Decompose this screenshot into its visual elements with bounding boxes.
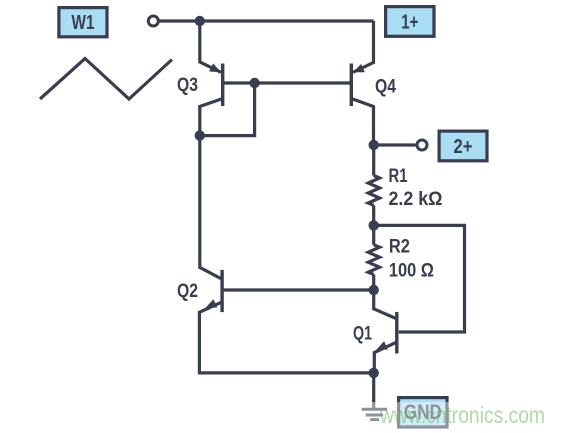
resistor R2 body [368, 245, 379, 275]
arrow Q1 emitter (NPN, points outward) [376, 341, 388, 350]
watermark translucent backdrop [340, 402, 563, 433]
wire R2 bottom stem [372, 275, 375, 290]
node junction Q3/Q4 base [249, 78, 259, 88]
svg-text:R2: R2 [389, 237, 410, 258]
transistor Q1 bar [395, 312, 398, 354]
wire base-collector tie of Q3 [200, 83, 255, 136]
svg-text:W1: W1 [72, 12, 95, 34]
wire ground stem [372, 373, 375, 409]
wire Q2 emitter to bottom rail [199, 302, 373, 373]
svg-text:www.cntronics.com: www.cntronics.com [379, 402, 545, 428]
transistor Q4 bar [350, 64, 353, 107]
svg-text:1+: 1+ [401, 11, 418, 33]
wire Q1 collector [374, 290, 396, 319]
svg-text:R1: R1 [389, 166, 408, 187]
transistor Q3 bar [221, 64, 224, 107]
arrow Q3 emitter (PNP, points into bar) [209, 63, 221, 72]
wire Q2 base [222, 288, 374, 291]
wire Q1 emitter drop [374, 343, 396, 373]
wire 2+ stub [374, 143, 416, 146]
svg-text:Q1: Q1 [353, 324, 372, 345]
wire Q3 emitter drop [200, 21, 221, 72]
wire Q4 collector drop [351, 99, 373, 146]
terminal circle 2+ [417, 140, 427, 150]
box 1+ [386, 7, 434, 37]
node junction R2/Q2 base/Q1 collector [369, 285, 379, 295]
box GND [399, 398, 447, 427]
arrow Q4 emitter (PNP, points into bar) [353, 64, 365, 72]
wire Q3 collector to Q2 collector [200, 99, 223, 279]
node junction top rail [195, 16, 205, 26]
svg-text:Q3: Q3 [177, 75, 198, 96]
waveform triangle symbol [40, 59, 172, 100]
wire top rail [160, 19, 374, 22]
box 2+ [439, 131, 487, 161]
wire R1 top stem [372, 145, 375, 176]
svg-text:Q4: Q4 [375, 77, 396, 98]
node junction Q3 collector tie [195, 130, 205, 140]
node junction 2+ / R1 [369, 140, 379, 150]
svg-text:2.2 kΩ: 2.2 kΩ [389, 189, 443, 210]
node junction bottom rail / ground [369, 368, 379, 378]
box W1 [59, 8, 107, 37]
transistor Q2 bar [220, 270, 223, 312]
svg-text:Q2: Q2 [177, 281, 198, 302]
terminal circle W1 input [148, 16, 158, 26]
node junction R1/R2 [369, 220, 379, 230]
ground symbol [362, 409, 387, 419]
wire R1 bottom stem [372, 205, 375, 225]
wire R2 top stem [372, 225, 375, 244]
svg-text:100 Ω: 100 Ω [389, 261, 434, 282]
wire base rail Q3-Q4 [223, 81, 352, 84]
svg-text:2+: 2+ [454, 136, 473, 158]
arrow Q2 emitter (NPN, points outward) [205, 299, 217, 308]
wire loop from R1/R2 node to Q1 base [374, 225, 465, 332]
wire Q4 emitter drop [353, 21, 374, 72]
resistor R1 body [368, 176, 379, 206]
